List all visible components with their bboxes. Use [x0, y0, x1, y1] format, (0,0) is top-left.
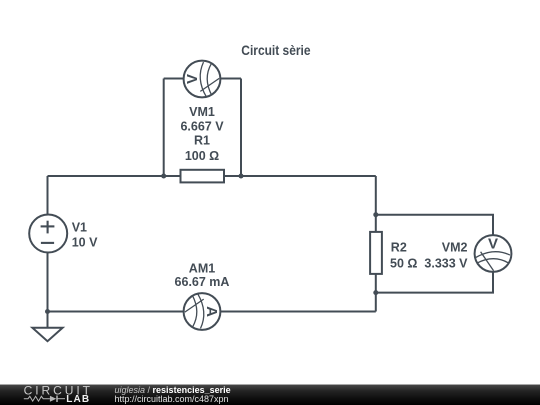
node B junction top-right of R1: [239, 174, 244, 179]
node C junction above R2: [373, 212, 378, 217]
svg-text:R1: R1: [194, 134, 210, 148]
wire VM1 loop left vertical: [163, 79, 165, 177]
node D junction below R2: [373, 290, 378, 295]
svg-text:LAB: LAB: [66, 394, 90, 405]
svg-text:VM2: VM2: [442, 241, 468, 255]
wire top rail: [48, 175, 376, 177]
ground: [32, 328, 62, 341]
wire right branch through R2: [375, 176, 377, 312]
wire VM2 loop top: [376, 215, 493, 254]
svg-text:50 Ω: 50 Ω: [390, 257, 417, 271]
svg-text:VM1: VM1: [189, 105, 215, 119]
wire ground stub: [47, 312, 49, 329]
ammeter AM1: [184, 293, 221, 330]
wire VM1 loop top horizontal: [164, 78, 241, 80]
resistor R1: [181, 170, 225, 183]
voltmeter VM1: [184, 61, 221, 98]
svg-text:66.67 mA: 66.67 mA: [175, 275, 230, 289]
resistor R2: [370, 232, 382, 274]
node E ground junction: [45, 309, 50, 314]
node A junction top-left of R1: [161, 174, 166, 179]
svg-text:3.333 V: 3.333 V: [424, 257, 468, 271]
svg-text:V: V: [488, 236, 498, 253]
svg-text:100 Ω: 100 Ω: [185, 149, 219, 163]
svg-text:V: V: [184, 74, 201, 84]
svg-text:6.667 V: 6.667 V: [180, 119, 224, 133]
svg-text:R2: R2: [391, 241, 407, 255]
wire left branch through V1: [47, 176, 49, 312]
wire bottom rail through AM1: [48, 311, 376, 313]
svg-text:AM1: AM1: [189, 261, 215, 275]
svg-text:V1: V1: [72, 221, 87, 235]
wire VM2 loop bottom: [376, 254, 493, 293]
voltmeter VM2: [475, 235, 512, 272]
wire VM1 loop right vertical: [240, 79, 242, 177]
svg-text:A: A: [203, 306, 220, 317]
voltage source V1: [29, 215, 67, 253]
svg-text:Circuit sèrie: Circuit sèrie: [241, 42, 310, 58]
svg-text:10 V: 10 V: [72, 236, 98, 250]
